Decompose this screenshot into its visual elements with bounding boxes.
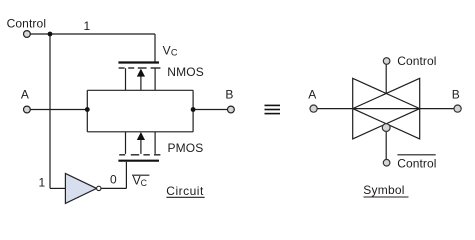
svg-text:Control: Control bbox=[397, 54, 436, 68]
svg-text:PMOS: PMOS bbox=[168, 141, 204, 155]
svg-text:1: 1 bbox=[84, 19, 91, 33]
svg-text:Control: Control bbox=[397, 156, 436, 170]
svg-text:0: 0 bbox=[110, 173, 117, 187]
svg-text:B: B bbox=[452, 88, 460, 102]
svg-text:A: A bbox=[21, 88, 29, 102]
svg-text:B: B bbox=[225, 88, 233, 102]
svg-text:1: 1 bbox=[39, 175, 46, 189]
svg-text:NMOS: NMOS bbox=[167, 65, 204, 79]
svg-text:V: V bbox=[163, 43, 171, 57]
svg-text:V: V bbox=[133, 174, 141, 188]
svg-text:Control: Control bbox=[7, 17, 47, 31]
svg-text:Symbol: Symbol bbox=[363, 183, 405, 197]
svg-text:C: C bbox=[141, 178, 148, 188]
svg-text:C: C bbox=[171, 48, 178, 58]
svg-text:A: A bbox=[308, 88, 316, 102]
svg-text:Circuit: Circuit bbox=[166, 184, 204, 198]
